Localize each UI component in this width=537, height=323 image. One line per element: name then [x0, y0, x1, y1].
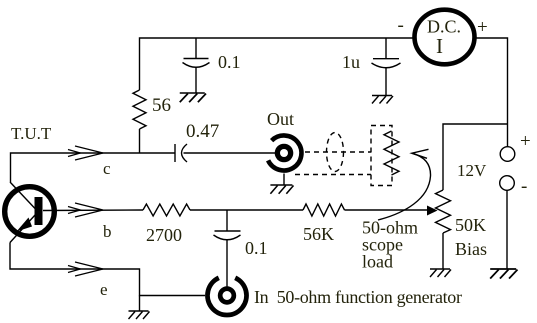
capacitor C1 0.1: [183, 38, 241, 93]
wire base: [43, 203, 143, 241]
wire BNC Out to ground: [283, 174, 285, 186]
terminal -: [500, 176, 528, 197]
svg-text:Bias: Bias: [455, 239, 487, 259]
BNC J2 In: [208, 278, 462, 315]
resistor R3 scope load: [362, 131, 418, 272]
arrow to scope load: [378, 149, 431, 220]
wire 12V branch: [443, 124, 508, 190]
svg-text:c: c: [103, 159, 111, 178]
resistor R4 2700: [143, 204, 303, 245]
wire top rail: [140, 38, 415, 90]
potentiometer R2 50K Bias: [436, 190, 488, 269]
svg-text:-: -: [398, 15, 404, 36]
svg-text:2700: 2700: [146, 225, 182, 245]
capacitor C3 0.47: [175, 121, 275, 162]
resistor R1 56: [133, 90, 171, 129]
ground under emitter corner: [129, 311, 150, 319]
capacitor C2 1u: [342, 38, 401, 96]
wire 56 to collector: [139, 129, 141, 153]
svg-text:T.U.T: T.U.T: [11, 124, 52, 143]
svg-text:In 50-ohm function generator: In 50-ohm function generator: [254, 287, 462, 307]
svg-text:0.1: 0.1: [245, 238, 268, 258]
ground right rail: [490, 269, 517, 279]
svg-text:load: load: [362, 252, 393, 272]
svg-text:56K: 56K: [303, 224, 334, 244]
BNC J1 Out: [267, 109, 301, 170]
svg-text:b: b: [103, 222, 112, 241]
terminal +: [500, 131, 531, 161]
wire emitter corner to ground: [139, 296, 141, 312]
wire terminal to ground: [506, 190, 508, 269]
svg-text:Out: Out: [267, 109, 294, 129]
ground under BNC Out: [270, 185, 293, 194]
svg-text:1u: 1u: [342, 52, 360, 72]
wire base to wiper with arrowhead: [345, 206, 438, 216]
ground under C2: [372, 96, 393, 104]
transistor Q1 T.U.T: [5, 124, 55, 243]
svg-text:e: e: [100, 280, 108, 299]
wire emitter: [10, 243, 205, 300]
ground under potentiometer: [430, 269, 451, 277]
meter U1 D.C. I: [398, 10, 488, 65]
svg-text:I: I: [436, 34, 443, 58]
svg-text:50K: 50K: [455, 215, 486, 235]
svg-text:+: +: [520, 131, 531, 152]
wire right rail: [475, 38, 508, 147]
resistor R5 56K: [303, 204, 345, 244]
svg-text:0.47: 0.47: [186, 121, 219, 142]
svg-text:12V: 12V: [457, 161, 487, 180]
svg-text:56: 56: [152, 95, 171, 116]
wire collector: [11, 146, 176, 182]
ground under C1: [180, 93, 206, 102]
coax dashed shield: [295, 126, 392, 186]
svg-text:+: +: [477, 17, 488, 38]
capacitor C4 0.1 mid: [214, 210, 268, 287]
svg-text:D.C.: D.C.: [427, 17, 461, 37]
svg-text:-: -: [521, 176, 527, 197]
svg-text:0.1: 0.1: [218, 52, 241, 72]
